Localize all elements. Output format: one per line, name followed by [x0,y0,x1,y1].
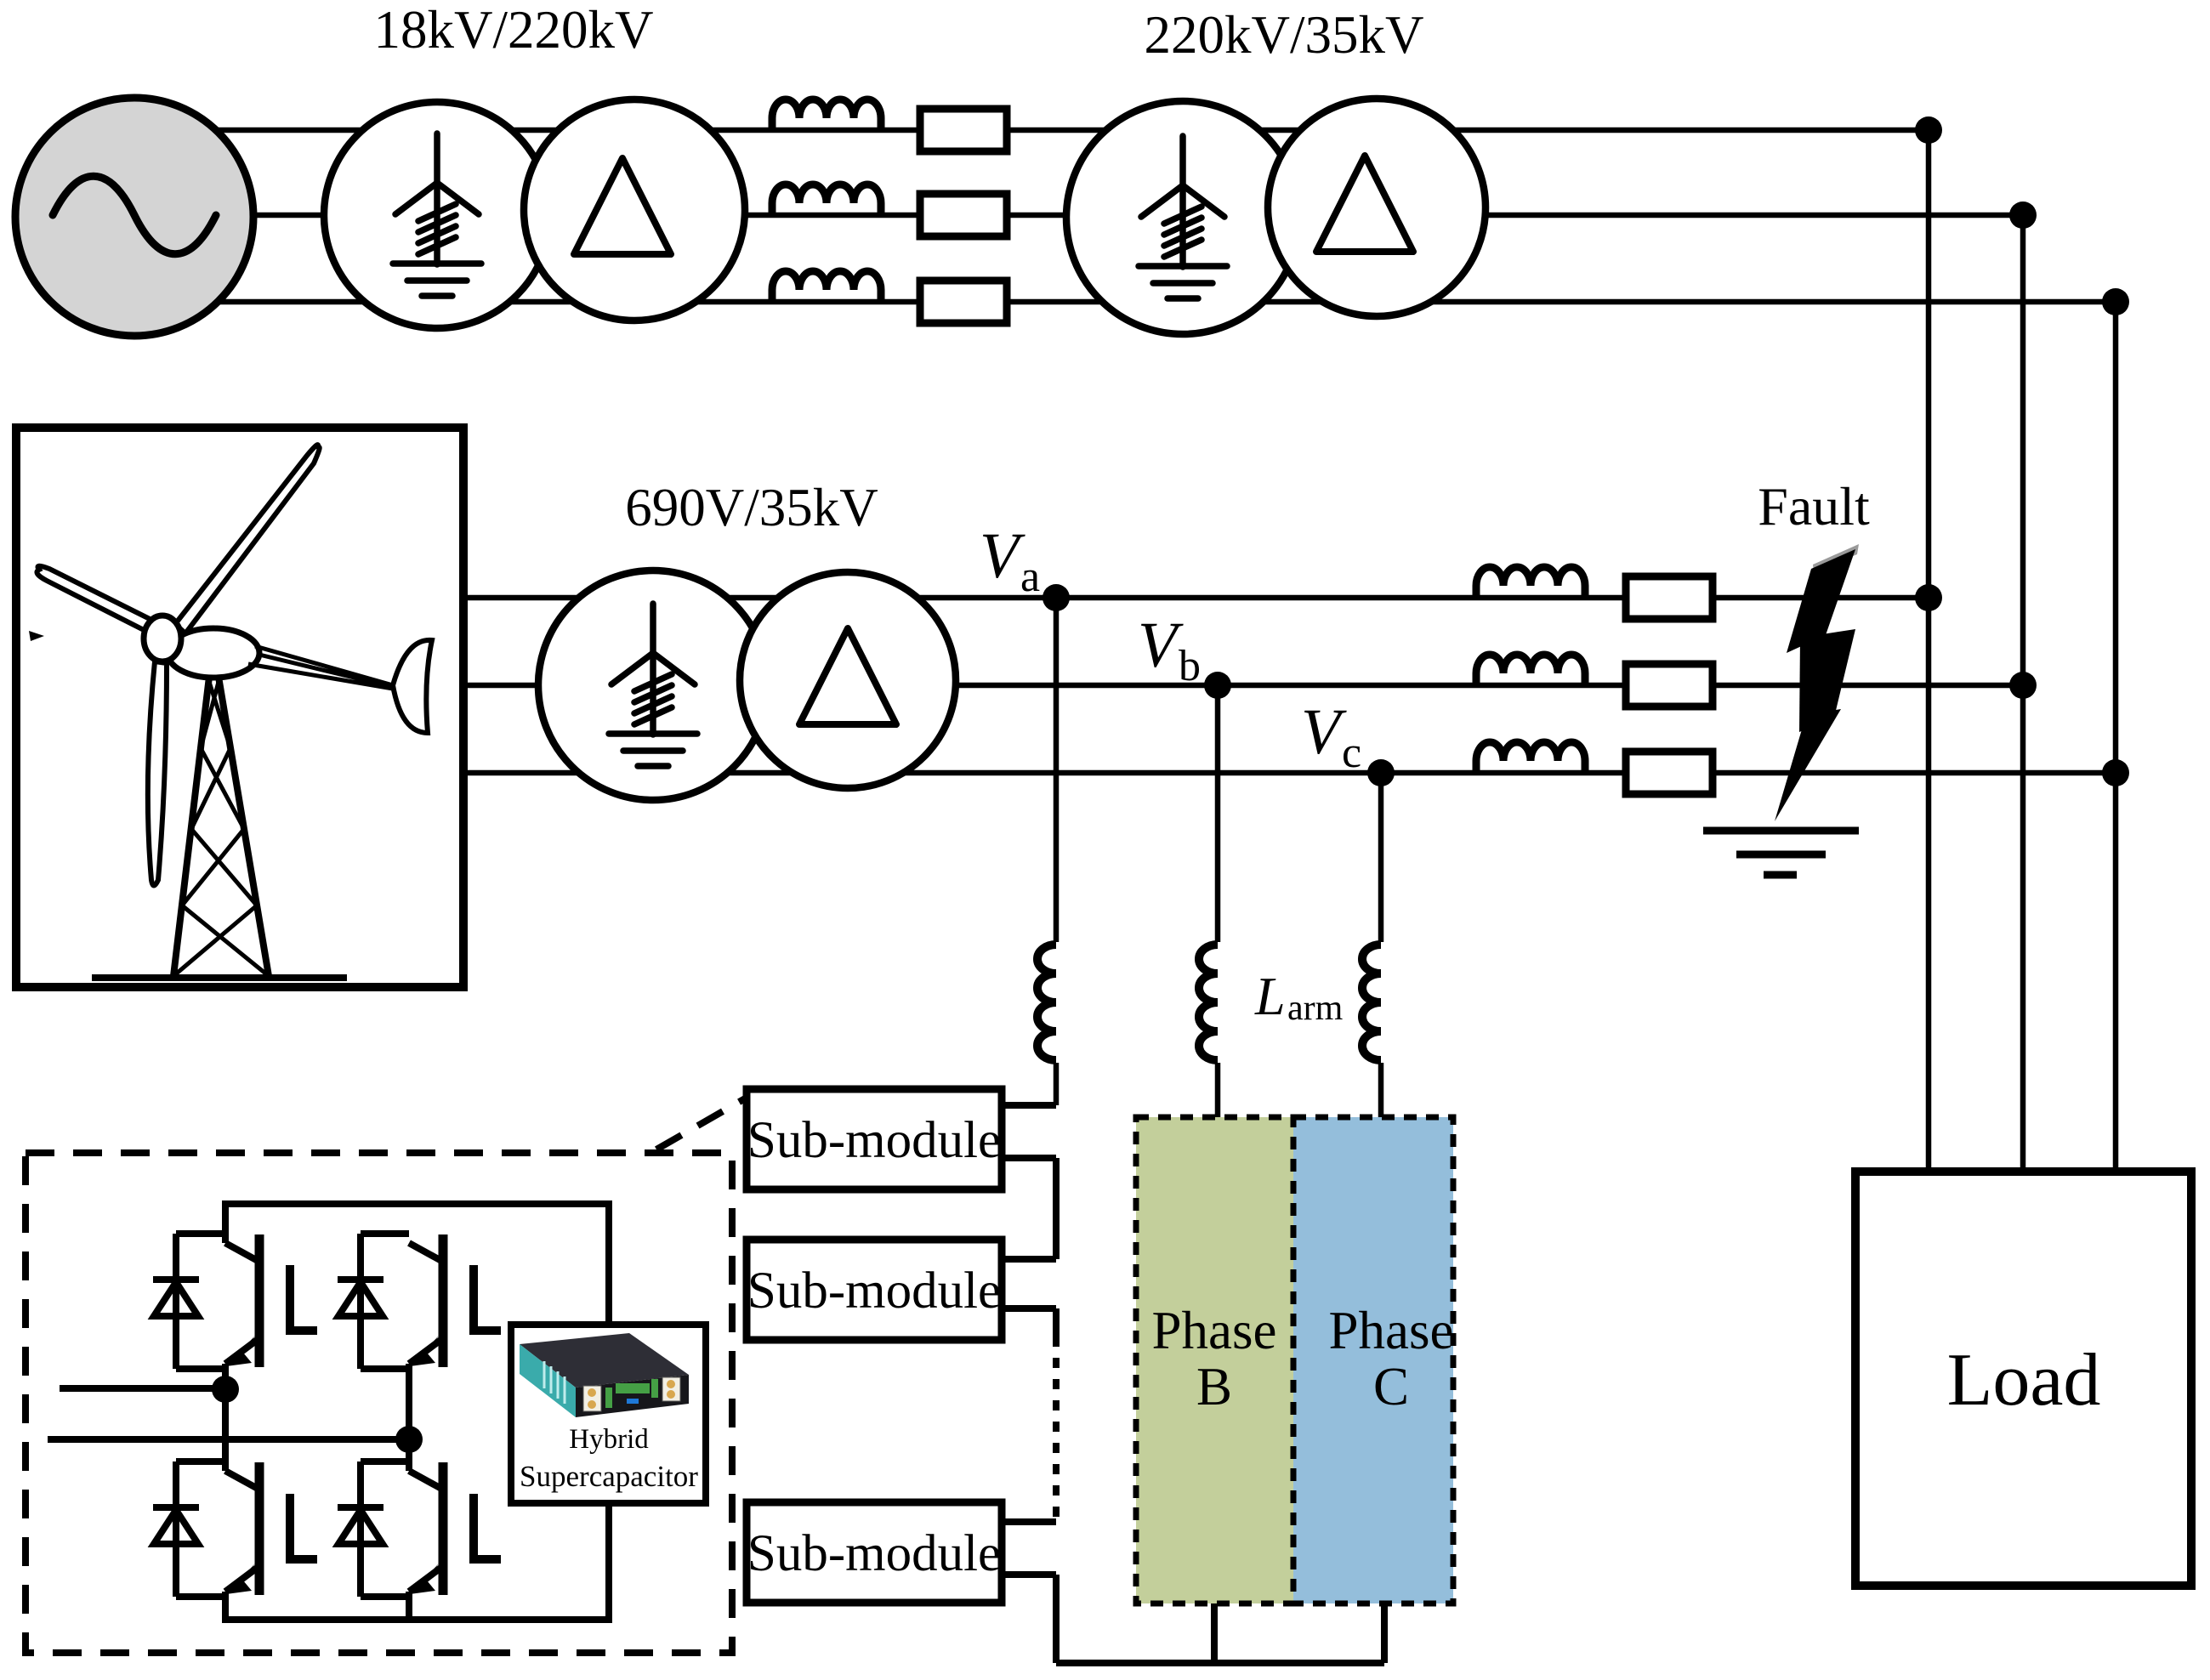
wire feeder phase c [463,770,2116,776]
svg-text:Phase: Phase [1329,1301,1454,1360]
phase B arm box [1136,1117,1293,1603]
resistor grid line 3 [920,281,1007,323]
sub-module box 1 [747,1089,1002,1189]
svg-text:arm: arm [1287,989,1344,1028]
wire phase B bottom riser [1211,1603,1218,1663]
diode D2 [338,1234,409,1369]
transformer T1 wye winding [324,102,550,328]
svg-text:V: V [1138,610,1184,681]
inductor arm A [1039,942,1060,1063]
svg-text:V: V [1301,696,1347,768]
svg-text:Phase: Phase [1152,1301,1277,1360]
node bridge midpoint 2 [395,1426,423,1453]
L glyph Q2 [474,1265,501,1331]
wire phase C bottom riser [1381,1603,1388,1663]
node bridge midpoint 1 [212,1376,239,1403]
wire node2 to lower-right collector [406,1439,412,1471]
wire SM3 output stub [1002,1571,1056,1578]
transistor Q3 lower-left IGBT [225,1462,259,1595]
wire SM2 input stub [1002,1256,1056,1263]
fault ground [1703,831,1859,875]
wire input 2 [48,1436,409,1443]
node feeder c junction [2102,759,2129,786]
wire SM3 input stub [1002,1518,1056,1525]
svg-text:b: b [1179,642,1201,690]
svg-text:B: B [1196,1357,1232,1416]
node grid C junction [2102,288,2129,315]
inductor arm C [1364,942,1384,1063]
node feeder a junction [1915,584,1942,611]
transistor Q4 lower-right IGBT [409,1462,443,1595]
inductor feeder line 2 [1476,655,1585,685]
wire bottom bus [1056,1660,1384,1666]
wire SM2 output stub [1002,1305,1056,1312]
node Vc [1367,759,1395,786]
resistor grid line 1 [920,109,1007,151]
wire arm phase A vertical [1054,598,1060,1105]
wire arm phase B vertical [1215,685,1221,1117]
transistor Q2 upper-right IGBT [409,1234,443,1367]
wire upper-right emitter to node [406,1364,412,1439]
diode D4 [338,1461,409,1597]
resistor feeder line 3 [1626,752,1713,794]
wire bridge top bus [225,1204,609,1325]
transformer T3 wye winding [538,570,768,800]
callout dashed diagonal [656,1098,747,1149]
svg-text:18kV/220kV: 18kV/220kV [374,0,654,60]
wire bridge bottom bus [225,1498,609,1620]
inductor grid line 3 [772,271,881,302]
svg-text:L: L [1254,966,1286,1026]
svg-text:Sub-module: Sub-module [747,1112,1001,1169]
wire node1 to lower-left collector [222,1389,229,1471]
wire arm phase C vertical [1378,773,1384,1117]
inductor arm B [1201,942,1221,1063]
wire SM3 to bottom bus [1053,1575,1060,1663]
svg-text:Load: Load [1947,1339,2101,1422]
sub-module detail dashed box [26,1153,732,1653]
fault lightning bolt [1775,544,1859,821]
diode D3 [153,1461,225,1597]
node Va [1043,584,1070,611]
inductor grid line 1 [772,99,881,130]
svg-text:Hybrid: Hybrid [569,1424,649,1455]
inductor feeder line 1 [1476,567,1585,598]
sub-module box 2 [747,1240,1002,1340]
resistor grid line 2 [920,194,1007,236]
L glyph Q3 [290,1494,317,1559]
svg-text:Fault: Fault [1758,476,1870,536]
svg-text:c: c [1342,729,1361,777]
node grid B junction [2009,201,2037,229]
wire drop phase B to load [2020,215,2026,1172]
diode D1 [153,1234,225,1369]
node grid A junction [1915,116,1942,144]
hybrid supercapacitor framed image [511,1325,706,1503]
wire grid phase C [134,299,2116,305]
phase C arm box [1293,1117,1453,1603]
inductor feeder line 3 [1476,742,1585,773]
resistor feeder line 1 [1626,576,1713,619]
wire SM1 output stub [1002,1155,1056,1161]
resistor feeder line 2 [1626,664,1713,707]
wire drop phase A to load [1926,130,1932,1172]
svg-text:Supercapacitor: Supercapacitor [520,1460,698,1493]
svg-text:Sub-module: Sub-module [747,1263,1001,1320]
node Vb [1204,672,1231,699]
svg-text:C: C [1373,1357,1409,1416]
wire grid phase A [134,128,1929,133]
wire feeder phase b [463,683,2023,689]
inductor grid line 2 [772,184,881,215]
L glyph Q4 [474,1494,501,1559]
wire drop phase C to load [2113,302,2119,1172]
load box [1855,1172,2191,1586]
wind turbine box [16,428,463,987]
wire dotted omitted modules [1053,1337,1060,1522]
transformer T1 delta winding [524,99,745,321]
ac source G1 [15,98,253,336]
wire lower-right emitter to bus [406,1592,412,1620]
transistor Q1 upper-left IGBT [225,1234,259,1367]
svg-text:a: a [1020,553,1040,601]
sub-module box 3 [747,1502,1002,1603]
wire SM1 input stub [1002,1102,1056,1109]
L glyph Q1 [290,1265,317,1331]
transformer T2 delta winding [1268,99,1486,316]
wire upper-left emitter to node [222,1364,229,1389]
svg-text:Sub-module: Sub-module [747,1525,1001,1582]
node feeder b junction [2009,672,2037,699]
svg-text:690V/35kV: 690V/35kV [625,478,878,537]
wire SM1-SM2 link [1053,1158,1060,1259]
wire feeder phase a [463,595,1929,601]
wire input 1 [60,1385,225,1392]
wind turbine sketch [29,445,432,978]
transformer T3 delta winding [740,572,956,788]
wire grid phase B [134,213,2023,219]
wire SM2 link solid part [1053,1308,1060,1337]
svg-text:220kV/35kV: 220kV/35kV [1145,5,1424,65]
svg-text:V: V [980,520,1025,592]
transformer T2 wye winding [1066,101,1299,334]
